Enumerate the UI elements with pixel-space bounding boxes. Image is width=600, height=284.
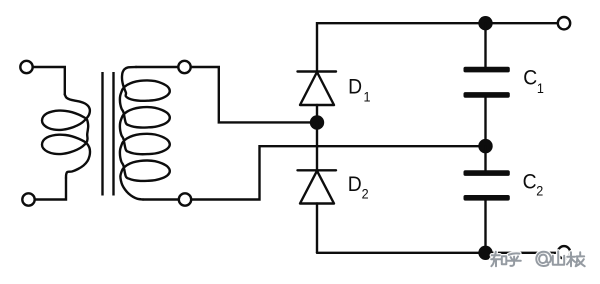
junction node D1-D2 [310, 115, 324, 129]
svg-text:1: 1 [537, 80, 544, 96]
wire primary top [33, 67, 65, 95]
node top rail junction [478, 16, 492, 30]
diode D2 [298, 170, 337, 253]
transformer core [103, 72, 114, 196]
svg-text:D: D [348, 76, 362, 99]
wire secondary top lead [136, 66, 178, 68]
svg-text:D: D [348, 174, 362, 197]
wire top rail [317, 23, 557, 71]
diode D1 [298, 72, 337, 117]
svg-text:2: 2 [362, 186, 369, 202]
svg-text:2: 2 [536, 183, 543, 199]
wire D junction to D2 [316, 123, 318, 171]
wire C2 to bottom rail [484, 201, 486, 253]
svg-text:1: 1 [364, 89, 371, 105]
wire to C1 [484, 23, 486, 67]
terminal output top [558, 17, 570, 29]
wire secondary bottom lead [143, 198, 178, 200]
terminal primary bottom [22, 193, 34, 205]
terminal output bottom [558, 246, 570, 258]
node C midpoint [478, 139, 492, 153]
terminal primary top [20, 61, 32, 73]
terminal secondary bottom [179, 193, 191, 205]
wire bottom rail [317, 252, 557, 254]
wire primary bottom [35, 178, 66, 200]
svg-text:C: C [523, 171, 537, 194]
capacitor C2 [464, 170, 510, 200]
inductor secondary winding [120, 67, 170, 200]
svg-text:C: C [523, 67, 537, 90]
wire secondary bottom to C midpoint [192, 146, 486, 199]
wire C1 to midpoint [484, 98, 486, 147]
capacitor C1 [464, 67, 510, 98]
inductor primary winding [42, 95, 90, 179]
terminal secondary top [178, 61, 190, 73]
node bottom rail junction [478, 246, 492, 260]
watermark zhihu @shanzhi [491, 251, 585, 266]
wire midpoint to C2 [484, 146, 486, 170]
wire secondary top to D junction [191, 67, 310, 122]
